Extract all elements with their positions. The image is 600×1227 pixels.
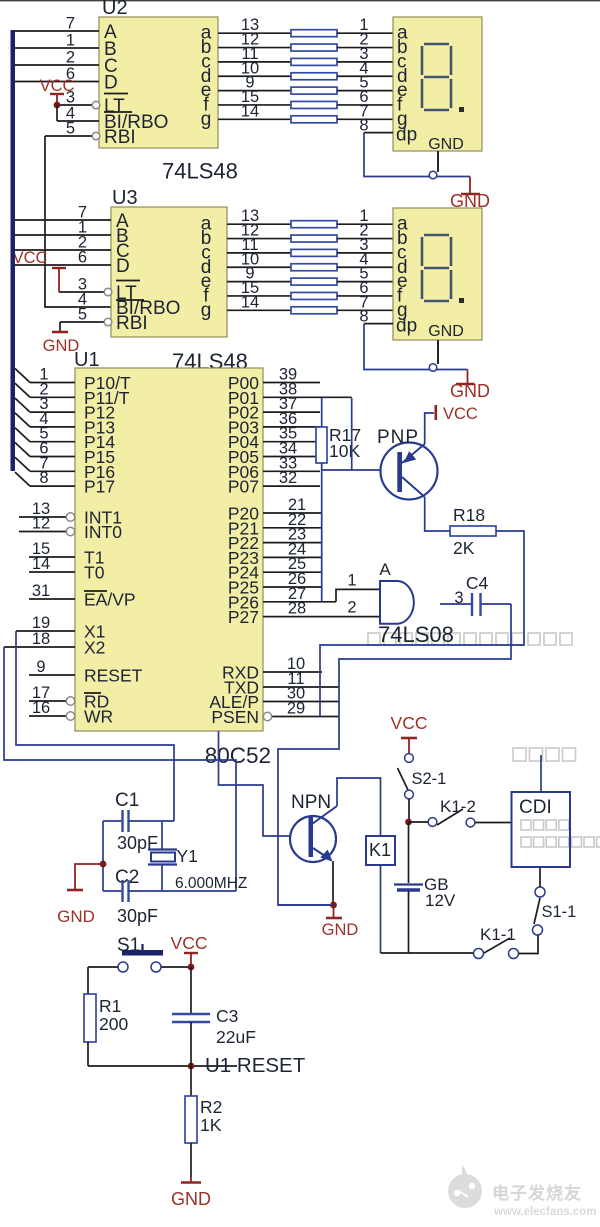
svg-text:C1: C1 (115, 790, 139, 811)
svg-text:1: 1 (347, 572, 356, 590)
svg-text:10K: 10K (329, 441, 360, 461)
svg-text:7: 7 (66, 15, 75, 33)
svg-text:5: 5 (78, 306, 87, 324)
svg-text:14: 14 (241, 293, 259, 311)
svg-text:INT0: INT0 (84, 522, 122, 542)
svg-text:14: 14 (241, 102, 259, 120)
svg-text:18: 18 (32, 630, 50, 648)
svg-text:VCC: VCC (40, 77, 75, 95)
svg-text:12: 12 (32, 515, 50, 533)
svg-text:g: g (201, 109, 212, 130)
svg-text:dp: dp (396, 125, 417, 146)
svg-text:www.elecfans.com: www.elecfans.com (493, 1206, 596, 1218)
svg-text:2: 2 (347, 599, 356, 617)
svg-text:GND: GND (322, 921, 359, 939)
svg-text:C2: C2 (115, 867, 139, 888)
svg-text:R18: R18 (453, 505, 485, 525)
svg-text:RBI: RBI (104, 127, 136, 148)
svg-text:2K: 2K (453, 538, 475, 558)
svg-text:29: 29 (287, 700, 305, 718)
svg-text:S2-1: S2-1 (412, 770, 447, 788)
svg-text:C4: C4 (466, 573, 489, 593)
svg-text:D: D (104, 73, 118, 94)
svg-text:PNP: PNP (377, 427, 419, 448)
svg-text:U1: U1 (74, 349, 100, 371)
svg-text:S1-1: S1-1 (542, 903, 577, 921)
svg-text:g: g (201, 300, 212, 321)
svg-text:RBI: RBI (116, 313, 148, 334)
svg-text:C3: C3 (216, 1006, 238, 1026)
svg-text:Y1: Y1 (177, 846, 198, 866)
svg-text:P27: P27 (228, 607, 259, 627)
svg-text:8: 8 (359, 308, 368, 326)
svg-text:D: D (116, 256, 130, 277)
svg-text:R1: R1 (99, 996, 121, 1016)
svg-text:K1-1: K1-1 (480, 925, 516, 944)
svg-text:14: 14 (32, 555, 50, 573)
svg-text:K1: K1 (369, 840, 391, 860)
svg-text:X2: X2 (84, 638, 105, 658)
svg-text:9: 9 (36, 658, 45, 676)
svg-text:200: 200 (99, 1014, 128, 1034)
svg-text:8: 8 (39, 469, 48, 487)
svg-text:22uF: 22uF (216, 1027, 256, 1047)
svg-text:VCC: VCC (391, 713, 428, 733)
svg-text:dp: dp (396, 316, 417, 337)
svg-text:A: A (379, 560, 391, 579)
svg-text:1K: 1K (200, 1115, 222, 1135)
svg-text:WR: WR (84, 707, 113, 727)
svg-text:12V: 12V (425, 891, 456, 910)
svg-text:30pF: 30pF (117, 906, 158, 926)
svg-text:31: 31 (32, 582, 50, 600)
svg-text:U1 RESET: U1 RESET (205, 1054, 306, 1077)
svg-text:8: 8 (359, 117, 368, 135)
svg-text:K1-2: K1-2 (440, 797, 476, 816)
svg-text:6.000MHZ: 6.000MHZ (175, 875, 247, 892)
svg-text:R2: R2 (200, 1097, 222, 1117)
svg-text:U3: U3 (112, 187, 138, 209)
svg-text:16: 16 (32, 699, 50, 717)
svg-text:6: 6 (78, 249, 87, 267)
svg-text:RESET: RESET (84, 666, 143, 686)
svg-text:32: 32 (279, 469, 297, 487)
svg-text:28: 28 (288, 600, 306, 618)
svg-text:GND: GND (57, 907, 95, 926)
svg-text:P07: P07 (228, 477, 259, 497)
svg-text:U2: U2 (102, 0, 128, 19)
svg-text:电子发烧友: 电子发烧友 (492, 1183, 582, 1203)
svg-text:74LS48: 74LS48 (162, 159, 238, 184)
svg-text:VCC: VCC (171, 933, 208, 953)
svg-text:5: 5 (66, 120, 75, 138)
svg-text:CDI: CDI (519, 797, 552, 818)
svg-text:80C52: 80C52 (205, 743, 271, 768)
svg-text:1: 1 (66, 32, 75, 50)
svg-text:GND: GND (428, 136, 464, 153)
svg-text:2: 2 (66, 49, 75, 67)
svg-text:P17: P17 (84, 477, 115, 497)
svg-text:GND: GND (428, 323, 464, 340)
svg-text:EA/VP: EA/VP (84, 590, 136, 610)
svg-text:PSEN: PSEN (211, 707, 259, 727)
svg-text:74LS08: 74LS08 (378, 622, 454, 647)
svg-text:VCC: VCC (13, 249, 48, 267)
svg-text:NPN: NPN (291, 792, 331, 813)
svg-text:VCC: VCC (443, 405, 478, 423)
svg-text:GND: GND (171, 1189, 211, 1209)
svg-text:GND: GND (450, 381, 490, 401)
svg-text:T0: T0 (84, 563, 105, 583)
